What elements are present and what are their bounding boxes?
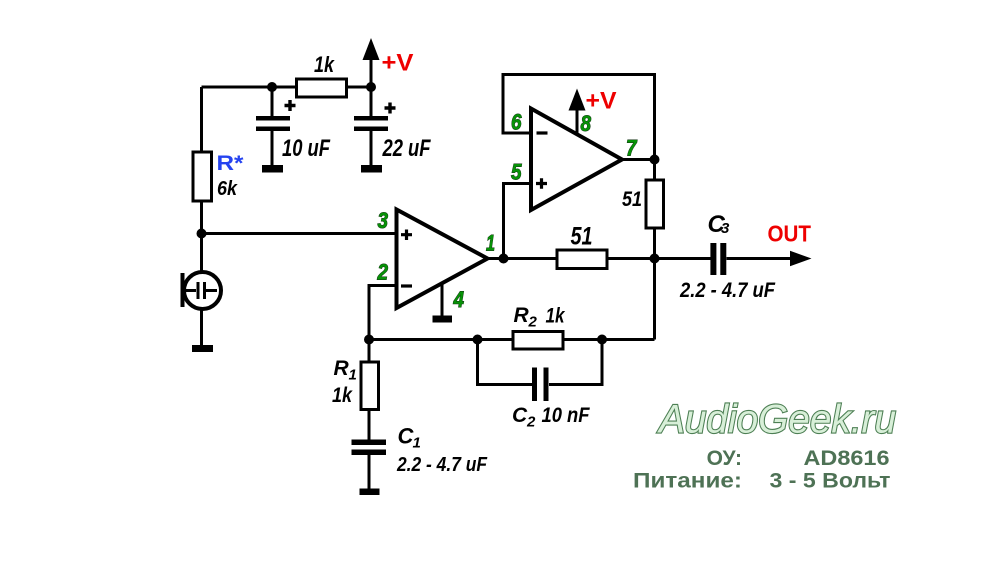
wire: feedback line (pin2 node to output branch): [369, 338, 655, 341]
footer label Pitanie:: [633, 469, 742, 492]
node (output junction): [650, 254, 660, 264]
svg-text:1k: 1k: [314, 52, 335, 77]
value label 22 uF: [382, 135, 432, 162]
svg-text:2: 2: [377, 260, 389, 285]
node (top rail left): [267, 82, 277, 92]
svg-text:2.2 - 4.7 uF: 2.2 - 4.7 uF: [396, 454, 488, 476]
svg-text:2: 2: [526, 414, 536, 431]
footer label OY:: [707, 447, 742, 470]
value label 6k: [217, 178, 238, 200]
pin 7: [626, 136, 638, 161]
label OUT (red): [768, 221, 812, 247]
svg-text:OUT: OUT: [768, 221, 812, 247]
output arrow: [790, 251, 812, 266]
node (pin 7 output): [650, 155, 660, 165]
wire: op-amp U2 output to node: [622, 158, 655, 161]
svg-text:4: 4: [453, 287, 464, 312]
footer value AD8616: [804, 447, 890, 470]
label C3: [708, 211, 731, 238]
value label 2.2 - 4.7 uF (C3): [679, 279, 776, 302]
logo AudioGeek.ru: [657, 398, 896, 442]
pin 5: [511, 160, 522, 185]
svg-text:C: C: [512, 404, 528, 427]
svg-text:8: 8: [581, 111, 592, 136]
svg-text:AD8616: AD8616: [804, 447, 890, 470]
svg-text:3: 3: [378, 208, 389, 233]
microphone (electret): [181, 272, 222, 309]
wire: op-amp U1 output line to C3: [488, 257, 711, 260]
svg-text:22 uF: 22 uF: [382, 135, 432, 162]
wire: 22uF capacitor branch: [370, 87, 373, 166]
svg-text:AudioGeek.ru: AudioGeek.ru: [657, 398, 896, 442]
svg-text:2: 2: [528, 314, 538, 331]
svg-text:3 - 5 Вольт: 3 - 5 Вольт: [770, 469, 891, 492]
wire: R1/C1 branch down from feedback node: [368, 340, 371, 490]
capacitor C 10uF (electrolytic): [256, 100, 296, 131]
power +V arrow (op-amp U2 pin 8): [569, 89, 586, 111]
wire: pin 8 supply stem: [576, 108, 579, 134]
wire: output node vertical branch down to feedback line: [653, 160, 656, 340]
svg-text:6: 6: [511, 110, 522, 135]
wire: C3 to output arrow: [727, 257, 794, 260]
resistor 51 (horizontal, output): [557, 250, 607, 269]
value label 10 uF: [282, 135, 331, 162]
label +V (right, red): [586, 88, 617, 115]
wire: non-inverting input to op-amp U1 pin 3: [202, 232, 397, 235]
wire: pin 4 ground stem: [441, 284, 444, 316]
pin 6: [511, 110, 522, 135]
svg-text:51: 51: [571, 223, 593, 251]
resistor R1: [361, 362, 379, 410]
value label 1k (R1): [332, 384, 353, 407]
value label 1k (top resistor): [314, 52, 335, 77]
svg-text:10 nF: 10 nF: [542, 404, 591, 427]
node (R2 right / C2): [597, 335, 607, 345]
pin 4: [453, 287, 464, 312]
svg-text:1k: 1k: [546, 304, 566, 327]
ground (op-amp U1 pin 4): [433, 316, 453, 323]
label R1: [334, 357, 357, 384]
ground (under 22uF): [361, 165, 382, 173]
node (op1 output): [499, 254, 509, 264]
svg-text:1: 1: [486, 231, 495, 256]
svg-text:7: 7: [626, 136, 638, 161]
label +V (left, red): [382, 50, 414, 77]
svg-text:1: 1: [349, 367, 357, 384]
ground (under 10uF): [262, 165, 283, 173]
ground (under microphone): [192, 345, 213, 352]
svg-text:ОУ:: ОУ:: [707, 447, 742, 470]
label C2 10 nF: [512, 404, 591, 431]
capacitor C3: [713, 243, 723, 275]
node (R2 left / C2): [473, 335, 483, 345]
value label 51 (horizontal resistor): [571, 223, 593, 251]
wire: inverting input pin 2 down to feedback node: [369, 286, 397, 340]
node (feedback left / R1): [364, 335, 374, 345]
value label 2.2 - 4.7 uF (C1): [396, 454, 488, 476]
svg-text:R*: R*: [217, 152, 245, 175]
svg-text:R: R: [334, 357, 350, 380]
svg-text:51: 51: [622, 188, 642, 211]
wire: op-amp U2 pin 6 feedback loop (top): [503, 75, 655, 160]
capacitor C1: [352, 442, 387, 452]
wire: C2 branch (parallel to R2): [478, 340, 603, 385]
value label 51 (vertical resistor): [622, 188, 642, 211]
resistor 1k (top rail): [297, 79, 347, 97]
label R2 1k: [514, 304, 566, 331]
ground (under C1): [360, 489, 380, 496]
wire: link from output node up to op-amp U2 pin 5: [504, 184, 532, 259]
power +V arrow (left): [363, 38, 380, 60]
wire: 10uF capacitor branch: [271, 87, 274, 166]
svg-text:+V: +V: [382, 50, 414, 77]
svg-text:3: 3: [721, 220, 730, 237]
svg-text:1k: 1k: [332, 384, 353, 407]
node (top rail right, +V): [366, 82, 376, 92]
svg-text:5: 5: [511, 160, 522, 185]
wire: top horizontal rail: [202, 86, 372, 89]
svg-text:Питание:: Питание:: [633, 469, 742, 492]
capacitor C 22uF (electrolytic): [354, 103, 396, 132]
pin 3: [378, 208, 389, 233]
svg-text:1: 1: [413, 435, 421, 452]
pin 8: [581, 111, 592, 136]
resistor 51 (vertical): [646, 180, 664, 228]
label R* (blue): [217, 152, 245, 175]
resistor R*: [193, 152, 212, 201]
svg-text:R: R: [514, 304, 530, 327]
pin 2: [377, 260, 389, 285]
node (input junction): [197, 229, 207, 239]
op-amp U2 (pins 5-8): [531, 109, 622, 211]
svg-text:2.2 - 4.7 uF: 2.2 - 4.7 uF: [679, 279, 776, 302]
op-amp U1 (pins 1-4): [397, 210, 488, 309]
label C1: [398, 423, 421, 451]
wire: left vertical rail from top rail through R* and mic to ground: [200, 87, 203, 345]
wire: +V supply stem: [370, 57, 373, 87]
svg-text:10 uF: 10 uF: [282, 135, 331, 162]
resistor R2 1k: [513, 332, 563, 350]
capacitor C2: [535, 368, 547, 402]
svg-text:6k: 6k: [217, 178, 238, 200]
pin 1: [486, 231, 495, 256]
footer value 3 - 5 Volt: [770, 469, 891, 492]
